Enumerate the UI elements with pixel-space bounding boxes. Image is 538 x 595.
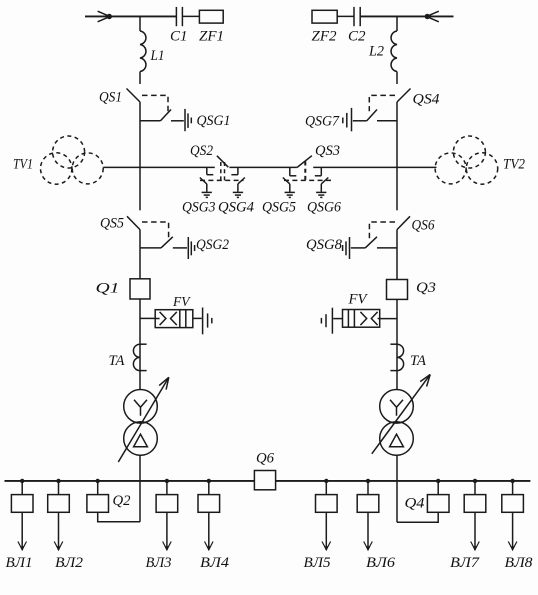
wire: bottom bus right of Q6 — [276, 480, 531, 482]
svg-text:ВЛ1: ВЛ1 — [6, 555, 33, 571]
wire: incoming line right — [360, 15, 453, 17]
wire: bus mid segment — [229, 166, 297, 168]
current transformer TA (left) — [133, 344, 146, 370]
transformer T1 — [118, 377, 169, 462]
wire: bus left segment — [103, 166, 215, 168]
svg-text:ВЛ4: ВЛ4 — [200, 555, 230, 571]
wire: right column to Q3 — [396, 230, 398, 280]
svg-text:ВЛ2: ВЛ2 — [55, 555, 84, 571]
bus coupler Q6 — [254, 471, 275, 490]
svg-text:QSG5: QSG5 — [262, 199, 296, 215]
QS6-QSG8 linkage (dashed) — [369, 222, 395, 240]
svg-text:QSG2: QSG2 — [196, 237, 229, 253]
wire — [182, 15, 199, 17]
arrow incoming right with junction dot — [425, 11, 439, 22]
circuit breaker Q1 — [130, 279, 150, 299]
svg-text:QSG4: QSG4 — [218, 199, 254, 215]
wire: left column upper — [139, 102, 141, 210]
filter ZF2 — [312, 10, 337, 23]
grounding switch QSG1 — [140, 109, 191, 131]
feeder VL5 — [316, 479, 338, 552]
svg-text:C2: C2 — [348, 29, 366, 45]
QSG3-QSG4 linkage dashed horizontal — [200, 179, 244, 181]
QS4-QSG7 linkage (dashed) — [369, 95, 395, 111]
wire: incoming line left — [85, 15, 176, 17]
QSG5-QSG6 linkage dashed horizontal — [284, 179, 331, 181]
grounding switch QSG8 — [343, 237, 397, 259]
wire — [139, 16, 141, 31]
current transformer TA (right) — [390, 344, 403, 370]
svg-text:ВЛ5: ВЛ5 — [304, 555, 331, 571]
svg-text:QS6: QS6 — [412, 218, 435, 234]
circuit breaker Q3 — [387, 280, 408, 300]
svg-text:C1: C1 — [170, 29, 188, 45]
svg-text:QS4: QS4 — [413, 92, 441, 108]
svg-text:TA: TA — [109, 353, 126, 369]
wire: right column upper — [396, 102, 398, 210]
QS5-QSG2 linkage (dashed) — [142, 222, 169, 240]
svg-text:FV: FV — [172, 294, 191, 309]
circuit breaker Q4 — [427, 495, 449, 513]
svg-text:ВЛ8: ВЛ8 — [505, 555, 534, 571]
svg-text:QS1: QS1 — [99, 90, 122, 106]
svg-text:TA: TA — [410, 353, 427, 369]
feeder VL7 — [464, 479, 486, 552]
svg-text:ВЛ7: ВЛ7 — [450, 555, 481, 571]
capacitor C2 — [354, 7, 360, 26]
wire: Q3 to transformer — [396, 299, 398, 389]
svg-text:Q1: Q1 — [96, 281, 120, 297]
feeder VL2 — [48, 479, 70, 552]
wire: transformer T2 down — [396, 455, 398, 522]
feeder VL6 — [357, 479, 379, 552]
filter ZF1 — [199, 10, 223, 23]
svg-text:Q6: Q6 — [256, 451, 274, 467]
svg-text:QSG3: QSG3 — [182, 199, 216, 215]
feeder VL4 — [198, 479, 220, 552]
disconnector QS1 blade — [127, 89, 141, 103]
feeder VL3 — [156, 479, 178, 552]
svg-text:QS3: QS3 — [315, 143, 340, 159]
circuit breaker Q2 — [87, 495, 109, 513]
grounding switch QSG4 — [231, 167, 245, 197]
wire: loop to Q2 — [98, 512, 140, 522]
svg-text:FV: FV — [348, 292, 369, 308]
disconnector QS4 blade — [397, 89, 411, 103]
svg-text:QS5: QS5 — [100, 216, 124, 232]
disconnector QS3 blade — [297, 156, 312, 168]
disconnector QS2 blade — [217, 156, 228, 167]
capacitor C1 — [176, 7, 182, 26]
surge arrester FV (right) — [321, 308, 397, 334]
wire: bottom bus left of Q6 — [5, 480, 255, 482]
svg-text:TV1: TV1 — [13, 156, 33, 172]
svg-text:QS2: QS2 — [190, 143, 213, 159]
node: Q4 bus junction — [436, 479, 440, 483]
wire: transformer T1 down — [139, 455, 141, 522]
wire: Q4 stem to bus — [437, 481, 439, 495]
svg-text:QSG7: QSG7 — [305, 113, 340, 129]
disconnector QS5 blade — [127, 216, 140, 229]
grounding switch QSG3 — [200, 167, 214, 197]
disconnector QS6 blade — [397, 216, 410, 229]
svg-text:ZF2: ZF2 — [312, 29, 338, 45]
wire — [337, 15, 354, 17]
inductor L1 — [140, 31, 146, 72]
svg-text:L2: L2 — [368, 44, 384, 60]
grounding switch QSG2 — [140, 237, 195, 259]
wire — [139, 72, 141, 85]
wire — [396, 72, 398, 85]
svg-text:QSG1: QSG1 — [197, 113, 231, 129]
wire — [396, 16, 398, 31]
grounding switch QSG6 — [315, 167, 329, 197]
wire: loop to Q4 — [397, 512, 438, 522]
arrow incoming left with junction dot — [98, 11, 112, 22]
svg-text:QSG8: QSG8 — [306, 237, 342, 253]
node: Q2 bus junction — [96, 479, 100, 483]
svg-text:QSG6: QSG6 — [307, 199, 341, 215]
feeder VL1 — [11, 479, 33, 552]
svg-text:ВЛ3: ВЛ3 — [146, 555, 172, 571]
grounding switch QSG7 — [343, 108, 397, 131]
surge arrester FV (left) — [140, 308, 212, 335]
feeder VL8 — [502, 479, 524, 552]
voltage transformer TV1 (three dashed circles) — [41, 136, 104, 184]
wire: bus right segment — [313, 166, 436, 168]
svg-text:L1: L1 — [150, 48, 165, 64]
inductor L2 — [391, 31, 397, 72]
wire: Q2 stem to bus — [97, 481, 99, 495]
grounding switch QSG5 — [283, 167, 297, 197]
svg-text:ZF1: ZF1 — [199, 29, 224, 45]
svg-text:Q2: Q2 — [113, 493, 131, 509]
QS1-QSG1 linkage (dashed) — [142, 95, 168, 111]
wire: left column to Q1 — [139, 230, 141, 279]
QS3 linkage (dashed) — [304, 162, 306, 181]
wire: Q1 to transformer — [139, 299, 141, 390]
voltage transformer TV2 (three dashed circles) — [435, 136, 498, 184]
transformer T2 — [372, 375, 430, 456]
svg-text:Q3: Q3 — [416, 280, 436, 296]
svg-text:TV2: TV2 — [503, 156, 525, 172]
QS2 linkage (double dashed) — [221, 162, 225, 180]
svg-text:Q4: Q4 — [405, 496, 426, 512]
svg-text:ВЛ6: ВЛ6 — [366, 555, 396, 571]
